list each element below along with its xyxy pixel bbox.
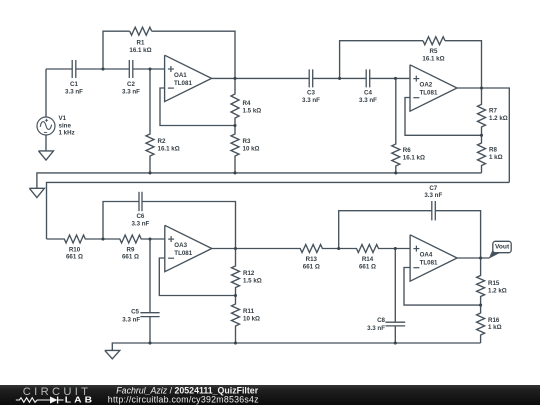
svg-text:TL081: TL081 [174, 80, 192, 87]
svg-text:3.3 nF: 3.3 nF [359, 97, 377, 104]
svg-text:R14: R14 [362, 256, 374, 263]
svg-text:C4: C4 [364, 90, 372, 97]
svg-text:OA4: OA4 [420, 252, 433, 259]
svg-text:C5: C5 [131, 309, 139, 316]
svg-text:TL081: TL081 [420, 89, 438, 96]
svg-text:OA1: OA1 [174, 72, 187, 79]
svg-text:16.1 kΩ: 16.1 kΩ [403, 154, 425, 161]
svg-text:R1: R1 [137, 40, 145, 47]
svg-text:R10: R10 [69, 246, 81, 253]
svg-text:3.3 nF: 3.3 nF [367, 325, 385, 332]
svg-text:C6: C6 [136, 213, 144, 220]
svg-text:10 kΩ: 10 kΩ [243, 146, 260, 153]
svg-text:3.3 nF: 3.3 nF [131, 221, 149, 228]
svg-text:LAB: LAB [65, 396, 95, 405]
svg-text:Vout: Vout [495, 244, 510, 251]
svg-text:R16: R16 [488, 317, 500, 324]
svg-text:661 Ω: 661 Ω [122, 254, 139, 261]
svg-text:R15: R15 [488, 280, 500, 287]
svg-text:R6: R6 [403, 147, 411, 154]
svg-text:C2: C2 [127, 81, 135, 88]
svg-text:C8: C8 [377, 317, 385, 324]
svg-text:C7: C7 [429, 185, 437, 192]
svg-text:R11: R11 [243, 308, 255, 315]
svg-text:TL081: TL081 [174, 250, 192, 257]
svg-text:3.3 nF: 3.3 nF [122, 89, 140, 96]
svg-text:16.1 kΩ: 16.1 kΩ [422, 56, 444, 63]
svg-text:16.1 kΩ: 16.1 kΩ [129, 47, 151, 54]
svg-text:661 Ω: 661 Ω [303, 263, 320, 270]
svg-text:C3: C3 [307, 90, 315, 97]
svg-text:R3: R3 [243, 138, 251, 145]
svg-text:1.2 kΩ: 1.2 kΩ [488, 287, 507, 294]
svg-text:R12: R12 [243, 270, 255, 277]
svg-text:16.1 kΩ: 16.1 kΩ [158, 146, 180, 153]
svg-text:R9: R9 [127, 246, 135, 253]
svg-text:1.5 kΩ: 1.5 kΩ [243, 107, 262, 114]
svg-text:3.3 nF: 3.3 nF [65, 89, 83, 96]
svg-text:1.5 kΩ: 1.5 kΩ [243, 278, 262, 285]
svg-text:3.3 nF: 3.3 nF [424, 192, 442, 199]
svg-text:R8: R8 [489, 146, 497, 153]
svg-text:OA2: OA2 [420, 82, 433, 89]
svg-text:OA3: OA3 [174, 242, 187, 249]
svg-text:1 kΩ: 1 kΩ [488, 324, 502, 331]
svg-text:3.3 nF: 3.3 nF [302, 97, 320, 104]
svg-text:3.3 nF: 3.3 nF [122, 316, 140, 323]
svg-text:10 kΩ: 10 kΩ [243, 316, 260, 323]
svg-text:V1: V1 [59, 115, 67, 122]
svg-text:C1: C1 [70, 81, 78, 88]
svg-text:R2: R2 [158, 138, 166, 145]
svg-text:R13: R13 [306, 256, 318, 263]
svg-text:http://circuitlab.com/cy392m85: http://circuitlab.com/cy392m8536s4z [108, 395, 259, 405]
svg-text:1 kHz: 1 kHz [59, 130, 75, 137]
svg-text:R4: R4 [243, 100, 251, 107]
svg-text:R7: R7 [489, 108, 497, 115]
svg-text:sine: sine [59, 122, 72, 129]
svg-text:R5: R5 [430, 48, 438, 55]
svg-text:1.2 kΩ: 1.2 kΩ [489, 115, 508, 122]
svg-text:TL081: TL081 [420, 260, 438, 267]
svg-text:1 kΩ: 1 kΩ [489, 154, 503, 161]
svg-text:661 Ω: 661 Ω [66, 254, 83, 261]
svg-text:661 Ω: 661 Ω [359, 263, 376, 270]
